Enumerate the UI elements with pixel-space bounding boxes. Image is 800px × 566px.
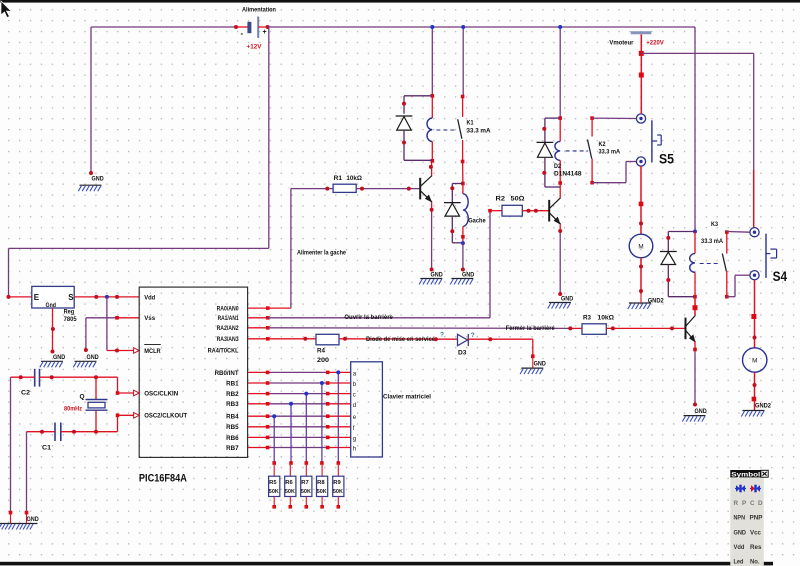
coil K1 (427, 118, 432, 142)
svg-text:NPN: NPN (734, 515, 746, 522)
node Q2 emitter pin (558, 229, 562, 233)
svg-text:K1: K1 (467, 119, 474, 126)
wire RA3 stub (248, 338, 268, 340)
svg-text:P: P (742, 500, 746, 507)
wire Vss to ground (86, 318, 139, 350)
svg-text:OSC/CLKIN: OSC/CLKIN (144, 390, 178, 397)
wire K1 coil bottom (431, 142, 433, 161)
wire K2 switch to S5 bottom (592, 162, 636, 183)
label Clavier matriciel (383, 394, 431, 401)
wire C2 left to ground leg (11, 377, 35, 512)
wire C1 left to ground leg (27, 432, 56, 513)
node K2 switch bottom (590, 181, 594, 185)
node K1 switch rail junction (461, 25, 465, 29)
keypad pin letters (353, 371, 357, 452)
node D3 gnd node (531, 354, 535, 358)
svg-text:7805: 7805 (64, 316, 77, 323)
svg-text:80mHz: 80mHz (64, 405, 82, 412)
node Q3 emitter pin (693, 348, 697, 352)
svg-text:10kΩ: 10kΩ (598, 314, 615, 321)
node Gache coil bottom (461, 235, 465, 239)
svg-text:200: 200 (317, 357, 330, 364)
wire S4 to motor M2 (754, 280, 756, 348)
node keypad column taps (272, 370, 340, 418)
transistor Q3 (686, 315, 696, 342)
wire MCLR tie to Vdd (107, 297, 134, 351)
wire K1 coil feed (431, 27, 433, 118)
wire S5 to motor M1 (640, 166, 642, 234)
node D3 left pin (434, 337, 438, 341)
svg-text:RA1/AN1: RA1/AN1 (218, 315, 239, 322)
wire into regulator E (9, 296, 32, 298)
node Q1 base pin (407, 187, 411, 191)
wire D3 to ground corner (467, 339, 533, 356)
wire into OSC/CLKIN (118, 377, 134, 393)
node motor M2 top pin (753, 336, 757, 340)
switch K1 contact (458, 27, 464, 162)
svg-text:D3: D3 (458, 350, 467, 357)
node motor M2 bottom pin (753, 383, 757, 387)
node K3 coil top junction (693, 230, 697, 234)
label query1 (440, 331, 444, 338)
wire Q1 collector (431, 161, 433, 176)
diode D2 D1N4148 flyback loop (537, 118, 561, 187)
svg-text:GND: GND (534, 361, 546, 368)
svg-text:g: g (353, 436, 356, 442)
svg-text:RA3/AN3: RA3/AN3 (217, 336, 239, 343)
panel row Led No (734, 559, 760, 566)
svg-text:50K: 50K (301, 489, 312, 495)
svg-text:GND: GND (53, 354, 65, 361)
svg-text:50Ω: 50Ω (511, 195, 525, 202)
node motor M1 bottom pin (639, 265, 643, 269)
node R4 right pin (343, 337, 347, 341)
wire Vmoteur down to S5 (640, 34, 642, 114)
resistor R4 (316, 334, 339, 364)
svg-text:GND: GND (27, 516, 39, 523)
svg-text:Vdd: Vdd (144, 294, 155, 301)
wire RA2 to R3 (268, 327, 582, 330)
node RA1 stub end (266, 316, 270, 320)
svg-text:Reg: Reg (64, 309, 75, 316)
svg-text:?: ? (440, 331, 444, 338)
ground GND4 bottom-left (0, 513, 39, 530)
bottom window border (0, 562, 773, 566)
svg-text:K2: K2 (599, 141, 606, 148)
node C2 left pin (19, 375, 23, 379)
node S output pin (94, 295, 98, 299)
node RA2 stub end (266, 326, 270, 330)
node reg gnd pin (51, 327, 55, 331)
wire regulator output S to Vdd (74, 296, 139, 298)
coil K3 (690, 254, 695, 273)
switch K3 contact (722, 232, 727, 297)
node K3 coil bottom (693, 295, 697, 299)
node osc1 corner (116, 391, 120, 395)
svg-text:D: D (758, 500, 763, 507)
node R3 right pin (611, 326, 615, 330)
label query2 (471, 332, 475, 339)
node Q3 gnd end (693, 403, 697, 407)
svg-text:Res: Res (750, 544, 762, 551)
node C2 right pin (50, 375, 54, 379)
node R1 left pin (325, 187, 329, 191)
svg-text:GND: GND (92, 175, 104, 182)
wire K3 switch to S4 bottom (727, 275, 750, 297)
node Gache coil top (461, 182, 465, 186)
label Ouvrir la barriere (344, 314, 393, 321)
label K2 33.3 mA (599, 141, 621, 155)
svg-text:c: c (353, 393, 356, 399)
node Q2 gnd end (558, 292, 562, 296)
node K2 coil top (558, 116, 562, 120)
svg-text:Q: Q (80, 394, 85, 401)
svg-text:Diode de mise en service: Diode de mise en service (366, 336, 435, 343)
panel icon diode blue (735, 485, 746, 493)
svg-text:50K: 50K (333, 489, 344, 495)
svg-text:C: C (750, 500, 755, 507)
node R3 left pin (568, 326, 572, 330)
wire Q2 emitter to ground (559, 224, 561, 294)
svg-text:RA4/T0CKL: RA4/T0CKL (208, 348, 239, 355)
node R2 right pin (527, 209, 531, 213)
transistor Q2 (549, 198, 561, 225)
svg-text:GND: GND (734, 530, 747, 537)
terminal S5 bottom (636, 157, 645, 166)
node K2 rail junction (558, 25, 562, 29)
node battery plus pin (266, 25, 270, 29)
wire C1 right to OSC2 (61, 415, 134, 431)
diode D3 (458, 334, 469, 357)
node regulator E junction (7, 295, 11, 299)
svg-text:+12V: +12V (247, 44, 263, 51)
switch S4 actuator (766, 234, 777, 278)
node crystal top junction (94, 375, 98, 379)
svg-text:Alimenter la gache: Alimenter la gache (297, 249, 346, 256)
node MCLR wire pin (115, 349, 119, 353)
terminal S4 bottom (750, 271, 759, 280)
wire Gache to ground (462, 243, 464, 269)
node battery minus pin (234, 25, 238, 29)
top window border (0, 0, 800, 3)
wire Vmoteur branch to S4 (641, 53, 753, 227)
svg-text:GND: GND (87, 354, 99, 361)
svg-text:RB3: RB3 (226, 401, 239, 408)
svg-text:+: + (263, 29, 267, 36)
node R4 left pin (303, 337, 307, 341)
node Q2 base pin (534, 209, 538, 213)
svg-text:RB1: RB1 (226, 380, 239, 387)
node RA3 stub end (266, 337, 270, 341)
svg-text:R3: R3 (583, 314, 591, 321)
svg-text:+220V: +220V (646, 39, 664, 46)
svg-text:R7: R7 (301, 480, 309, 486)
node D3 right pin (488, 337, 492, 341)
wire motor M2 to GND2 (754, 372, 756, 410)
node motor M1 pre-gnd pin (639, 289, 643, 293)
wire C2 right to crystal (40, 376, 118, 378)
node Q1 collector pin (429, 165, 433, 169)
label Gache (468, 218, 486, 225)
svg-text:M: M (638, 244, 643, 251)
node RB row pins (266, 371, 330, 450)
wire battery minus to GND1 rail (91, 27, 236, 173)
svg-text:33.3 mA: 33.3 mA (467, 128, 491, 135)
resistors R5 R6 R7 R8 R9 50K (269, 463, 344, 509)
label PIC16F84A (139, 472, 187, 484)
node K2 coil bottom (558, 181, 562, 185)
svg-text:M: M (752, 358, 757, 365)
svg-text:Alimentation: Alimentation (242, 7, 276, 14)
node K1 coil top (431, 94, 435, 98)
diode D-K3 flyback loop (660, 232, 695, 297)
svg-text:GND: GND (462, 272, 474, 279)
power rail Vmoteur (609, 33, 664, 47)
svg-text:50K: 50K (285, 489, 296, 495)
ground GND2-reg (40, 354, 66, 367)
wire Q1 emitter to ground (431, 202, 433, 269)
wire D3 gnd stub (532, 356, 534, 368)
node Vdd junction (105, 295, 109, 299)
wire K3 coil top seg (694, 232, 696, 254)
panel Symbol titlebar (730, 470, 768, 478)
crystal Q 80mHz (64, 377, 108, 432)
node C1 right pin (72, 430, 76, 434)
svg-text:MCLR: MCLR (144, 348, 161, 355)
wire +12V to regulator input (9, 248, 269, 297)
label K3 33.3 mA (701, 221, 723, 245)
coil K2 (555, 141, 560, 160)
node keypad column ends (272, 461, 340, 465)
panel row Vdd Res (734, 544, 762, 551)
wire into battery (236, 26, 248, 28)
ground GND-Q3 (682, 408, 707, 422)
svg-text:RA2/AN2: RA2/AN2 (217, 325, 239, 332)
svg-text:PNP: PNP (750, 515, 763, 522)
resistor R2 (496, 195, 525, 216)
svg-text:33.3 mA: 33.3 mA (599, 148, 621, 155)
wire Q3 emitter to ground (694, 342, 696, 405)
node osc2 corner (116, 414, 120, 418)
motor M1 (629, 234, 653, 258)
diode D-Gache flyback loop (444, 184, 463, 243)
wire RB0-RB7 rows to keypad (248, 372, 351, 447)
svg-text:RB7: RB7 (226, 445, 239, 452)
svg-text:RB5: RB5 (226, 424, 239, 431)
node motor M1 top junction (639, 202, 644, 207)
label Diode de mise en service (366, 336, 435, 343)
ground GND-Gache (450, 272, 474, 285)
wire RA1 stub (248, 317, 268, 319)
keypad Clavier matriciel box (351, 362, 383, 457)
label Alimenter la gache (297, 249, 346, 256)
wire battery plus stub (258, 26, 267, 28)
wire RA3 to R4 (268, 338, 316, 340)
pin arrow OSC/CLKIN (134, 390, 140, 396)
wire Q2 collector (559, 187, 561, 198)
node K3 switch bottom (725, 295, 729, 299)
ground GND3-vss (73, 354, 99, 367)
wire Gache coil bottom (462, 226, 464, 242)
node C1 left pin (40, 430, 44, 434)
svg-text:Vdd: Vdd (734, 544, 745, 551)
wire RA0 to R1 (268, 189, 333, 309)
mouse cursor (1, 1, 12, 18)
wire K1 link dashes (436, 129, 456, 131)
node Gache bottom junction (461, 241, 465, 245)
panel Symbol body (730, 477, 764, 566)
svg-text:PIC16F84A: PIC16F84A (139, 472, 187, 484)
svg-text:D1N4148: D1N4148 (554, 171, 582, 178)
wire R4 to D3 (339, 338, 458, 340)
svg-text:Vss: Vss (144, 315, 155, 322)
svg-text:GND2: GND2 (755, 402, 771, 409)
resistor R1 (333, 175, 362, 192)
svg-text:S5: S5 (659, 151, 674, 167)
svg-text:Vcc: Vcc (750, 530, 761, 537)
svg-text:R9: R9 (333, 480, 341, 486)
terminal S5 top (636, 114, 645, 123)
svg-text:50K: 50K (269, 489, 280, 495)
svg-text:10kΩ: 10kΩ (346, 175, 362, 182)
svg-text:-: - (241, 29, 244, 38)
svg-text:C2: C2 (21, 390, 30, 397)
wire K2 switch to S5 top (592, 117, 636, 119)
wire K2 coil feed (559, 27, 561, 118)
node K1 switch top (461, 95, 465, 99)
node crystal bottom junction (94, 430, 98, 434)
svg-text:Symbol: Symbol (731, 471, 760, 478)
svg-text:50K: 50K (317, 489, 328, 495)
node RA0 stub end (266, 306, 270, 310)
node Vss gnd end (84, 348, 88, 352)
label S5 (659, 151, 674, 167)
pin arrow OSC2/CLKOUT (134, 413, 140, 419)
wire motor M1 to GND2 (640, 258, 642, 294)
node Q1 gnd end (430, 268, 434, 272)
IC U1 PIC16F84A body (139, 287, 247, 457)
svg-text:OSC2/CLKOUT: OSC2/CLKOUT (144, 413, 187, 420)
svg-text:GND: GND (561, 296, 573, 303)
svg-text:33.3 mA: 33.3 mA (701, 238, 723, 245)
svg-text:R: R (734, 500, 739, 507)
wire K3 coil bottom seg (694, 272, 696, 296)
ground GND2-M2 (741, 402, 771, 416)
ground GND2-M1 (628, 294, 664, 309)
pin arrow MCLR (134, 348, 140, 354)
label Reg 7805 (64, 309, 77, 324)
svg-text:E: E (34, 293, 40, 302)
svg-text:R1: R1 (334, 175, 343, 182)
svg-text:RA0/AN0: RA0/AN0 (217, 306, 239, 313)
svg-text:RB0/INT: RB0/INT (215, 370, 239, 377)
svg-text:R5: R5 (269, 480, 277, 486)
wire K1 to Gache coil (462, 162, 464, 194)
svg-text:d: d (353, 403, 356, 409)
IC left pin labels (144, 294, 187, 419)
svg-text:Clavier matriciel: Clavier matriciel (383, 394, 431, 401)
diode D-K1 flyback loop (396, 96, 433, 161)
svg-text:R4: R4 (317, 348, 325, 355)
node K1 coil bottom (431, 159, 435, 163)
svg-text:Fermer la barrière: Fermer la barrière (506, 325, 555, 332)
motor M2 (743, 348, 767, 372)
svg-text:R2: R2 (496, 195, 506, 202)
wire R3 to Q3 base (606, 327, 685, 329)
panel icon diode red (750, 485, 761, 493)
svg-text:K3: K3 (711, 221, 718, 228)
label K1 33.3 mA (467, 119, 491, 134)
node motor M2 top junction (751, 314, 756, 319)
label +12V (247, 44, 263, 51)
svg-text:Ouvrir la barrière: Ouvrir la barrière (344, 314, 393, 321)
svg-text:S4: S4 (773, 268, 788, 284)
svg-text:R8: R8 (317, 480, 325, 486)
svg-text:GND: GND (431, 272, 443, 279)
svg-text:R6: R6 (285, 480, 293, 486)
transistor Q1 (420, 176, 432, 203)
terminal S4 top (750, 228, 759, 237)
panel row NPN PNP (734, 515, 763, 522)
svg-text:GND: GND (695, 408, 707, 415)
switch K2 contact (588, 118, 593, 183)
svg-text:RB6: RB6 (226, 435, 239, 442)
wire top +12V rail (268, 26, 695, 28)
wire Q3 collector (694, 297, 696, 316)
wire RA1 to R2 (268, 211, 502, 318)
wire R1 to Q1 base (356, 188, 420, 190)
node Vmoteur junction 2 (639, 73, 644, 78)
wire R2 to Q2 base (522, 210, 549, 212)
node Q1 emitter pin (430, 208, 434, 212)
svg-text:h: h (353, 447, 356, 453)
wire K2 coil top seg (559, 118, 561, 141)
node Vdd wire pin (115, 295, 119, 299)
wire K3 switch to S4 top (727, 231, 750, 234)
coil Gache (463, 194, 468, 227)
ground GND-Q2 (548, 296, 574, 309)
node K1 switch bottom (461, 160, 465, 164)
node Q3 collector junction (693, 305, 698, 310)
IC right pin labels (208, 306, 239, 452)
svg-text:Vmoteur: Vmoteur (609, 39, 634, 46)
node R2 corner (488, 209, 492, 213)
node R1 right pin (360, 187, 364, 191)
label D2 D1N4148 (554, 163, 582, 178)
node K2 switch top (590, 116, 594, 120)
svg-text:No.: No. (750, 559, 760, 566)
svg-text:GND2: GND2 (648, 297, 664, 304)
resistor R3 (582, 314, 614, 334)
svg-text:Gache: Gache (468, 218, 486, 225)
ground GND-Q1 (419, 272, 443, 285)
node C1 leg end (25, 511, 29, 515)
wire K3 link dashes (700, 263, 720, 265)
panel row GND Vcc (734, 530, 762, 537)
svg-text:RB4: RB4 (226, 414, 239, 421)
svg-text:S: S (68, 293, 74, 302)
svg-text:D2: D2 (554, 163, 561, 170)
node motor M1 top pin (639, 222, 643, 226)
node K1 rail junction (430, 25, 434, 29)
node C2 leg end (9, 511, 13, 515)
node Q3 base pin (670, 326, 674, 330)
panel row R P C D (734, 500, 764, 507)
wire regulator Gnd pin down (52, 308, 54, 352)
wire RA2 stub (248, 327, 268, 329)
wire K2 coil bottom seg (559, 160, 561, 187)
label S4 (773, 268, 788, 284)
